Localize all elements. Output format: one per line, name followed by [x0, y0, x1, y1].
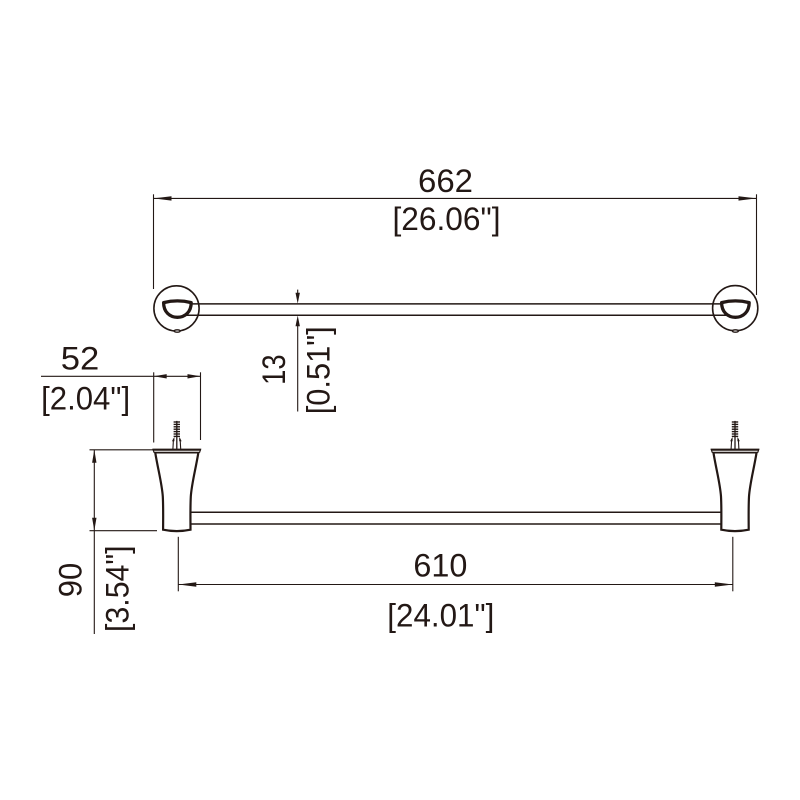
- svg-text:[24.01"]: [24.01"]: [387, 597, 494, 633]
- svg-text:[0.51"]: [0.51"]: [300, 326, 336, 414]
- svg-text:13: 13: [256, 354, 292, 385]
- svg-text:52: 52: [61, 341, 100, 377]
- svg-text:[2.04"]: [2.04"]: [41, 381, 130, 417]
- svg-text:610: 610: [413, 548, 467, 584]
- svg-text:662: 662: [418, 163, 473, 199]
- svg-text:[3.54"]: [3.54"]: [100, 545, 136, 632]
- svg-text:[26.06"]: [26.06"]: [393, 201, 501, 237]
- svg-text:90: 90: [52, 563, 88, 598]
